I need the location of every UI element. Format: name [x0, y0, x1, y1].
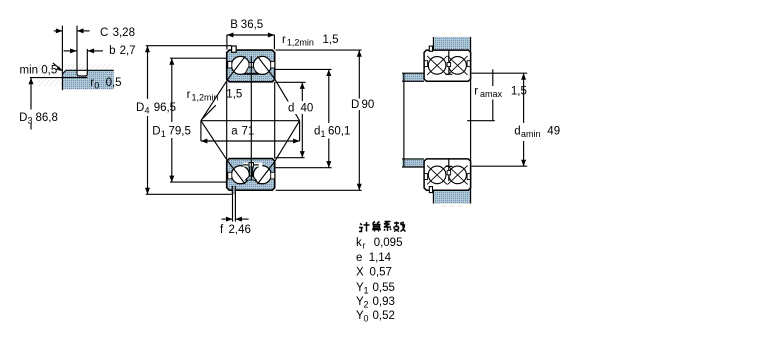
svg-text:r: r	[187, 89, 191, 101]
svg-text:3: 3	[28, 116, 33, 126]
svg-text:B: B	[230, 19, 238, 31]
svg-text:d: d	[288, 103, 294, 115]
svg-text:86,8: 86,8	[36, 112, 58, 124]
svg-text:r: r	[363, 240, 366, 250]
svg-text:0,095: 0,095	[374, 237, 403, 249]
svg-text:1,5: 1,5	[323, 34, 339, 46]
svg-text:k: k	[356, 237, 362, 249]
svg-text:1,5: 1,5	[226, 89, 242, 101]
svg-text:d: d	[314, 126, 320, 138]
svg-text:r: r	[474, 86, 478, 98]
svg-text:1,2min: 1,2min	[287, 38, 314, 48]
svg-text:1: 1	[321, 129, 326, 139]
svg-text:60,1: 60,1	[328, 126, 350, 138]
svg-text:4: 4	[145, 106, 150, 116]
svg-text:0: 0	[364, 314, 369, 324]
svg-text:amax: amax	[480, 89, 503, 99]
svg-text:min 0,5: min 0,5	[20, 65, 58, 77]
svg-text:0,5: 0,5	[106, 77, 122, 89]
svg-text:79,5: 79,5	[169, 126, 191, 138]
svg-text:1: 1	[161, 129, 166, 139]
svg-text:r: r	[282, 34, 286, 46]
svg-text:96,5: 96,5	[154, 102, 176, 114]
svg-text:3,28: 3,28	[113, 27, 135, 39]
svg-text:1: 1	[364, 285, 369, 295]
svg-text:90: 90	[362, 99, 375, 111]
svg-text:a: a	[231, 126, 238, 138]
svg-text:0,57: 0,57	[370, 267, 392, 279]
svg-text:1,14: 1,14	[369, 252, 392, 264]
svg-text:1,5: 1,5	[511, 86, 527, 98]
svg-text:49: 49	[547, 126, 560, 138]
svg-text:0,52: 0,52	[373, 310, 395, 322]
svg-text:2: 2	[364, 300, 369, 310]
svg-text:D: D	[152, 126, 160, 138]
svg-text:C: C	[100, 27, 108, 39]
svg-text:b: b	[109, 45, 115, 57]
svg-text:D: D	[136, 102, 144, 114]
svg-text:36,5: 36,5	[241, 19, 263, 31]
svg-text:1,2min: 1,2min	[192, 93, 219, 103]
svg-text:d: d	[514, 126, 520, 138]
svg-text:D: D	[351, 99, 359, 111]
svg-text:e: e	[356, 252, 362, 264]
svg-text:D: D	[19, 112, 27, 124]
svg-text:2,46: 2,46	[229, 224, 251, 236]
svg-text:2,7: 2,7	[120, 45, 136, 57]
svg-text:amin: amin	[521, 129, 541, 139]
svg-text:40: 40	[301, 103, 314, 115]
svg-text:X: X	[356, 267, 364, 279]
svg-text:0,55: 0,55	[373, 282, 395, 294]
svg-text:71: 71	[242, 126, 255, 138]
svg-text:0: 0	[94, 80, 99, 90]
svg-text:0,93: 0,93	[373, 296, 395, 308]
